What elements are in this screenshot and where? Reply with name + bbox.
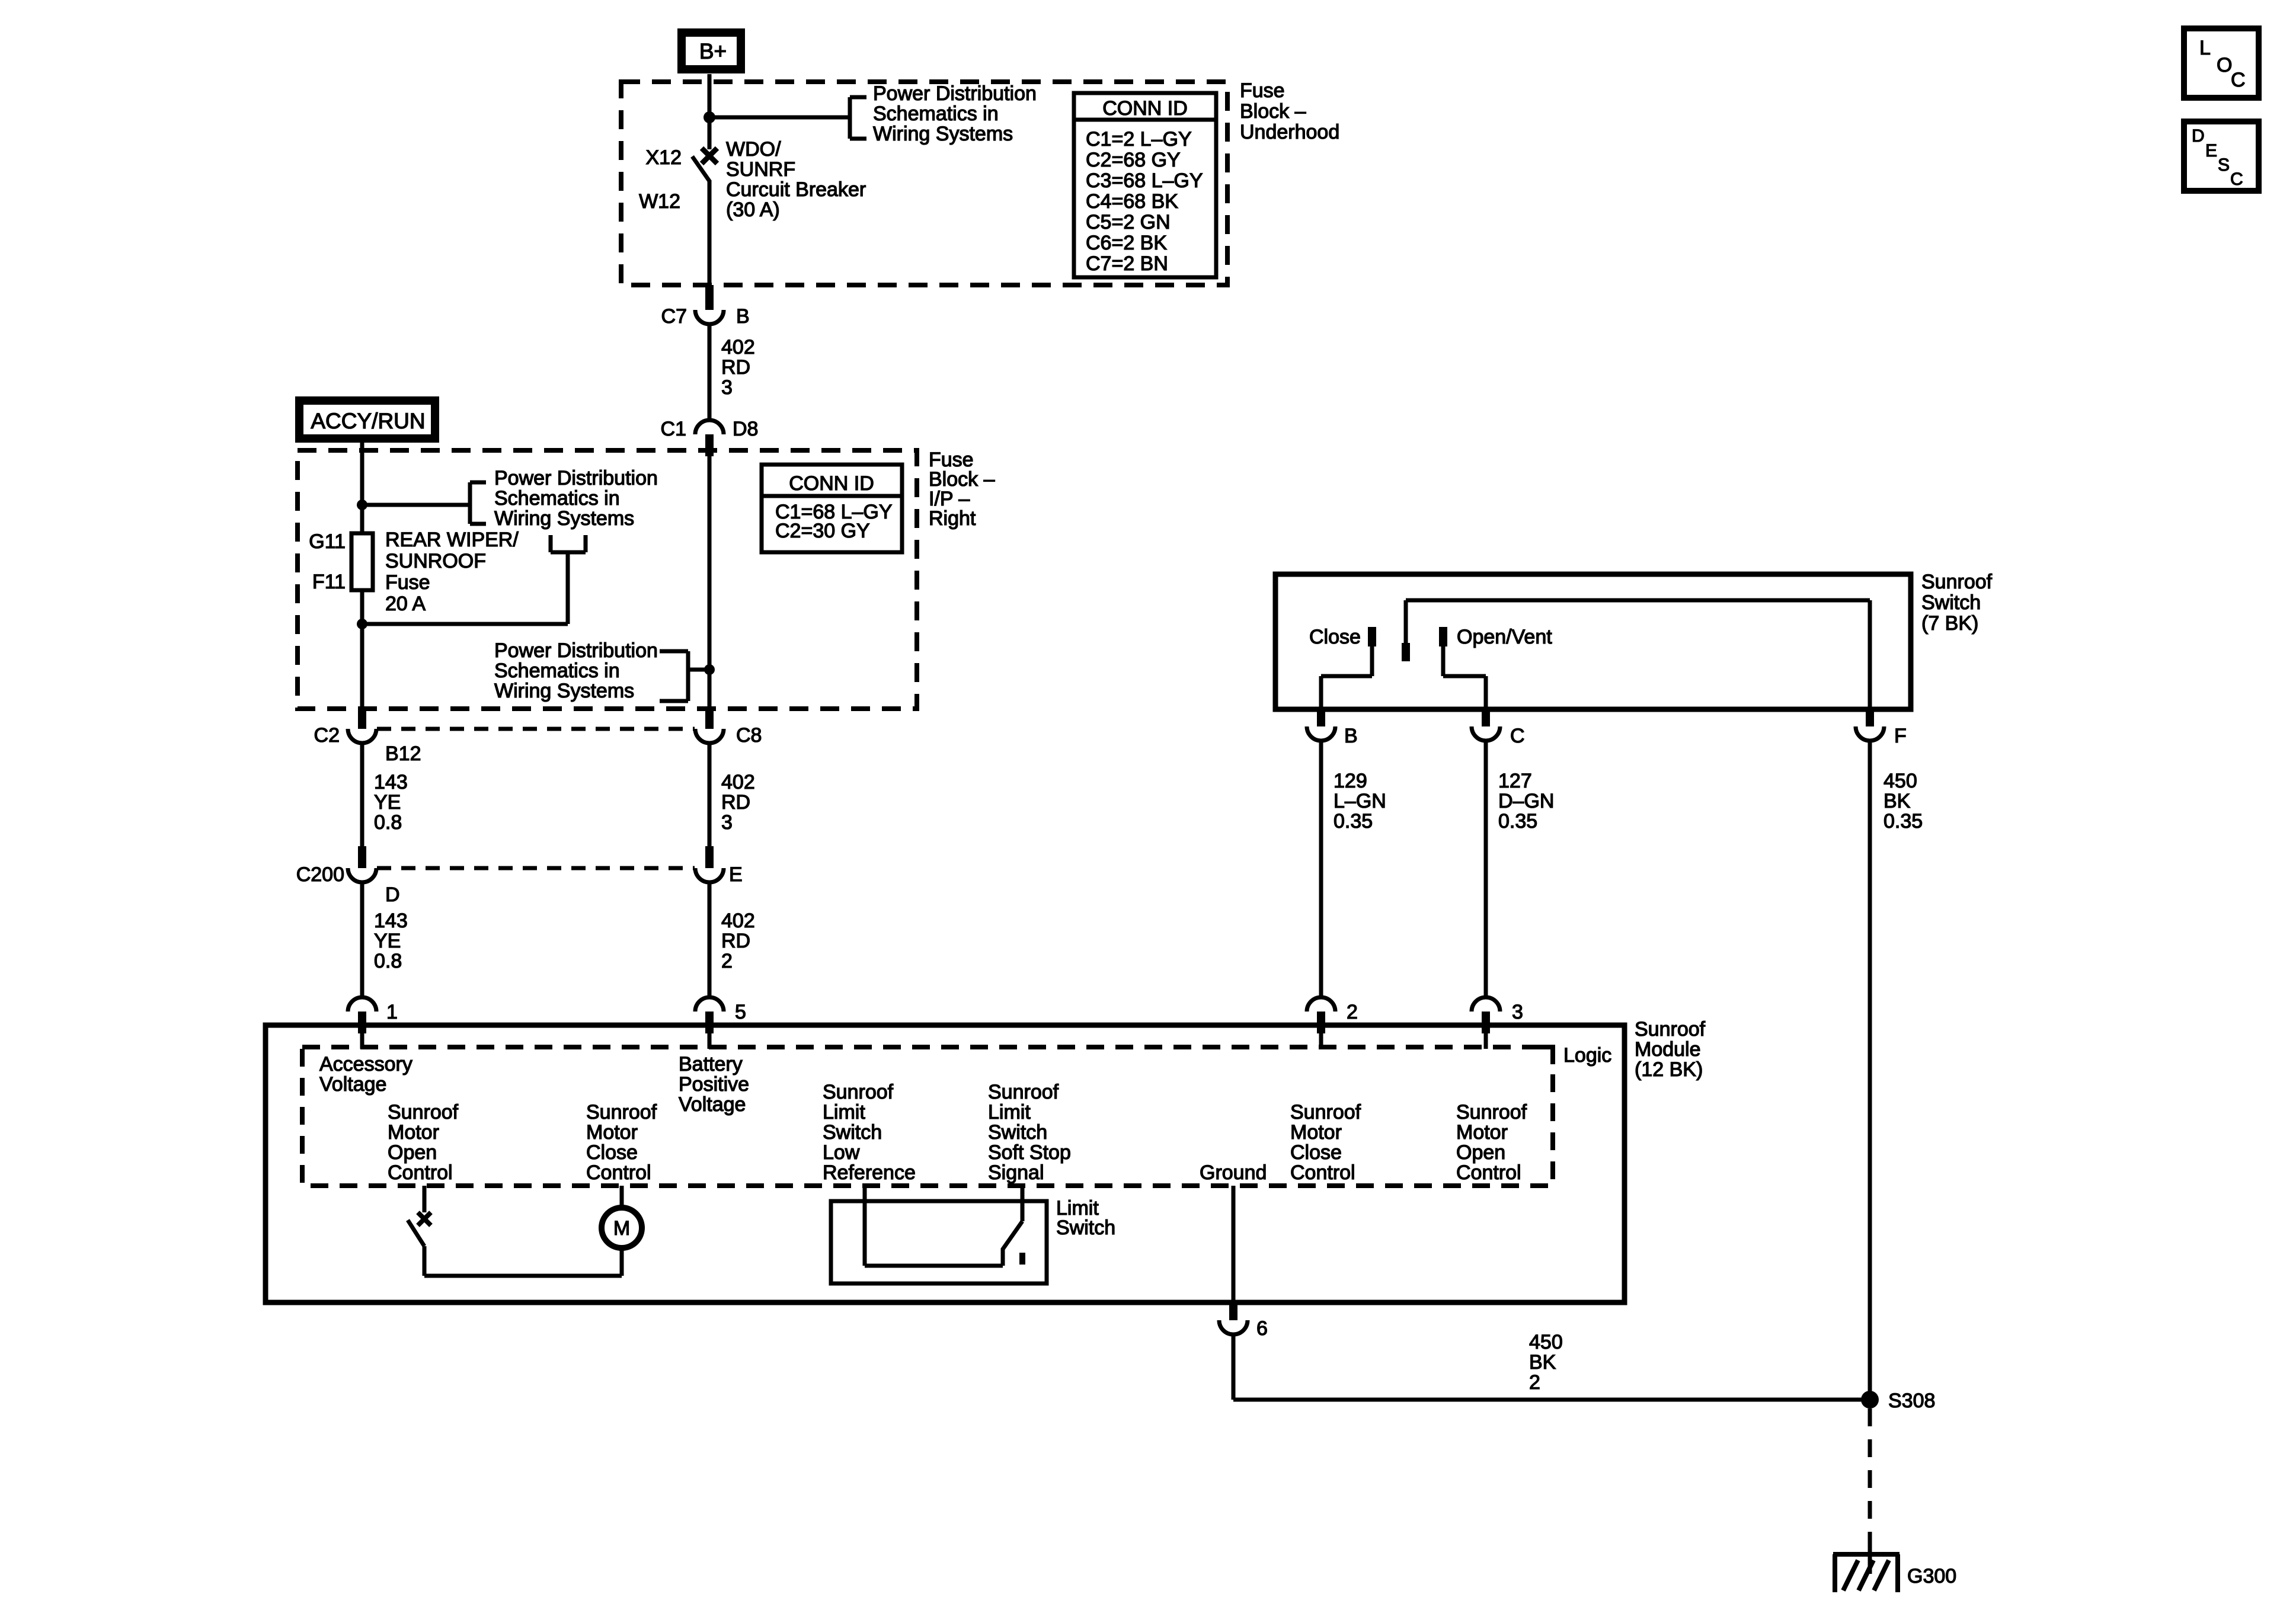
svg-text:BK: BK bbox=[1884, 790, 1911, 812]
svg-text:0.35: 0.35 bbox=[1334, 810, 1373, 833]
svg-text:0.35: 0.35 bbox=[1884, 810, 1923, 833]
svg-text:402: 402 bbox=[721, 910, 755, 932]
svg-text:C5=2 GN: C5=2 GN bbox=[1086, 211, 1171, 233]
svg-text:C3=68 L–GY: C3=68 L–GY bbox=[1086, 169, 1203, 192]
svg-text:F11: F11 bbox=[312, 571, 346, 593]
svg-text:Curcuit Breaker: Curcuit Breaker bbox=[726, 178, 866, 201]
svg-text:Sunroof: Sunroof bbox=[1921, 571, 1993, 593]
svg-text:C2: C2 bbox=[314, 724, 340, 747]
svg-text:C7=2 BN: C7=2 BN bbox=[1086, 252, 1168, 275]
svg-text:D: D bbox=[2192, 126, 2205, 146]
svg-text:Fuse: Fuse bbox=[385, 571, 430, 594]
svg-text:C2=30 GY: C2=30 GY bbox=[775, 520, 870, 542]
svg-text:D–GN: D–GN bbox=[1498, 790, 1554, 812]
svg-text:Open: Open bbox=[1456, 1141, 1505, 1164]
svg-text:(30 A): (30 A) bbox=[726, 199, 780, 221]
svg-text:Block –: Block – bbox=[1240, 100, 1306, 123]
svg-text:Right: Right bbox=[929, 507, 976, 530]
svg-text:RD: RD bbox=[721, 930, 750, 952]
svg-text:G300: G300 bbox=[1907, 1565, 1956, 1587]
svg-text:Fuse: Fuse bbox=[1240, 79, 1285, 102]
svg-text:YE: YE bbox=[374, 930, 401, 952]
svg-text:143: 143 bbox=[374, 910, 408, 932]
svg-text:G11: G11 bbox=[309, 530, 346, 553]
svg-text:C2=68 GY: C2=68 GY bbox=[1086, 149, 1181, 171]
svg-text:C7: C7 bbox=[661, 305, 687, 328]
svg-text:L–GN: L–GN bbox=[1334, 790, 1386, 812]
svg-text:0.8: 0.8 bbox=[374, 950, 402, 972]
svg-text:C1=2 L–GY: C1=2 L–GY bbox=[1086, 128, 1192, 151]
svg-text:B: B bbox=[736, 305, 750, 328]
svg-text:Sunroof: Sunroof bbox=[586, 1101, 657, 1124]
svg-text:RD: RD bbox=[721, 356, 750, 379]
svg-text:Power Distribution: Power Distribution bbox=[494, 639, 658, 662]
svg-text:402: 402 bbox=[721, 336, 755, 359]
svg-text:Switch: Switch bbox=[1921, 591, 1981, 614]
svg-text:20 A: 20 A bbox=[385, 593, 426, 615]
svg-text:Soft Stop: Soft Stop bbox=[988, 1141, 1071, 1164]
svg-text:127: 127 bbox=[1498, 770, 1532, 792]
svg-text:SUNROOF: SUNROOF bbox=[385, 550, 486, 572]
svg-text:Sunroof: Sunroof bbox=[1456, 1101, 1527, 1124]
svg-text:2: 2 bbox=[1347, 1001, 1358, 1023]
svg-text:Switch: Switch bbox=[823, 1121, 882, 1144]
svg-text:Limit: Limit bbox=[823, 1101, 865, 1124]
svg-text:(7 BK): (7 BK) bbox=[1921, 612, 1978, 635]
svg-text:6: 6 bbox=[1256, 1317, 1268, 1340]
svg-text:Switch: Switch bbox=[988, 1121, 1047, 1144]
svg-text:Motor: Motor bbox=[1456, 1121, 1508, 1144]
svg-text:Close: Close bbox=[1290, 1141, 1342, 1164]
svg-text:Open: Open bbox=[388, 1141, 437, 1164]
svg-text:Switch: Switch bbox=[1056, 1217, 1115, 1239]
svg-text:C: C bbox=[2230, 169, 2243, 189]
svg-text:BK: BK bbox=[1529, 1351, 1556, 1374]
svg-text:C6=2 BK: C6=2 BK bbox=[1086, 232, 1167, 254]
svg-text:D: D bbox=[385, 884, 400, 906]
svg-text:Voltage: Voltage bbox=[679, 1093, 746, 1116]
svg-text:Reference: Reference bbox=[823, 1161, 916, 1184]
svg-text:S308: S308 bbox=[1888, 1390, 1935, 1412]
svg-text:O: O bbox=[2217, 54, 2232, 76]
svg-text:B: B bbox=[1344, 725, 1358, 747]
svg-text:Close: Close bbox=[586, 1141, 638, 1164]
svg-text:3: 3 bbox=[1512, 1001, 1523, 1023]
svg-text:Wiring Systems: Wiring Systems bbox=[494, 507, 634, 530]
svg-text:SUNRF: SUNRF bbox=[726, 158, 795, 181]
svg-text:Low: Low bbox=[823, 1141, 860, 1164]
svg-text:Underhood: Underhood bbox=[1240, 121, 1339, 143]
svg-text:M: M bbox=[613, 1217, 630, 1240]
svg-text:L: L bbox=[2199, 37, 2211, 59]
svg-text:CONN ID: CONN ID bbox=[789, 472, 874, 495]
svg-text:Motor: Motor bbox=[388, 1121, 439, 1144]
svg-text:Sunroof: Sunroof bbox=[823, 1081, 894, 1103]
svg-text:2: 2 bbox=[721, 950, 733, 972]
svg-text:C200: C200 bbox=[296, 863, 344, 886]
svg-text:Positive: Positive bbox=[679, 1073, 749, 1096]
svg-text:RD: RD bbox=[721, 791, 750, 814]
svg-text:Logic: Logic bbox=[1563, 1044, 1611, 1067]
svg-text:F: F bbox=[1894, 725, 1907, 747]
svg-text:Motor: Motor bbox=[1290, 1121, 1342, 1144]
svg-text:Sunroof: Sunroof bbox=[388, 1101, 459, 1124]
svg-text:Open/Vent: Open/Vent bbox=[1457, 626, 1552, 648]
svg-text:Battery: Battery bbox=[679, 1053, 743, 1076]
svg-text:B+: B+ bbox=[699, 39, 727, 63]
svg-text:E: E bbox=[2205, 141, 2217, 161]
svg-text:Close: Close bbox=[1309, 626, 1361, 648]
svg-text:Voltage: Voltage bbox=[319, 1073, 386, 1096]
svg-text:402: 402 bbox=[721, 771, 755, 793]
svg-text:D8: D8 bbox=[733, 418, 758, 440]
svg-text:3: 3 bbox=[721, 811, 733, 834]
svg-text:C: C bbox=[1510, 725, 1525, 747]
svg-text:Control: Control bbox=[388, 1161, 453, 1184]
svg-text:Module: Module bbox=[1635, 1038, 1701, 1061]
svg-text:Control: Control bbox=[586, 1161, 651, 1184]
svg-text:129: 129 bbox=[1334, 770, 1367, 792]
svg-text:Power Distribution: Power Distribution bbox=[494, 467, 658, 489]
svg-text:Signal: Signal bbox=[988, 1161, 1044, 1184]
svg-text:2: 2 bbox=[1529, 1371, 1540, 1394]
svg-text:C1: C1 bbox=[661, 418, 686, 440]
svg-text:Sunroof: Sunroof bbox=[988, 1081, 1059, 1103]
svg-text:E: E bbox=[729, 863, 743, 886]
svg-text:Limit: Limit bbox=[988, 1101, 1031, 1124]
svg-text:YE: YE bbox=[374, 791, 401, 814]
svg-text:Sunroof: Sunroof bbox=[1635, 1018, 1706, 1041]
svg-text:C8: C8 bbox=[736, 724, 762, 747]
svg-text:143: 143 bbox=[374, 771, 408, 793]
svg-text:WDO/: WDO/ bbox=[726, 138, 781, 161]
svg-text:W12: W12 bbox=[639, 190, 680, 213]
svg-text:S: S bbox=[2218, 155, 2230, 175]
svg-text:3: 3 bbox=[721, 376, 733, 399]
svg-text:Schematics in: Schematics in bbox=[873, 103, 999, 125]
svg-text:Control: Control bbox=[1290, 1161, 1355, 1184]
svg-text:5: 5 bbox=[735, 1001, 746, 1023]
svg-text:REAR WIPER/: REAR WIPER/ bbox=[385, 529, 519, 551]
svg-text:450: 450 bbox=[1884, 770, 1917, 792]
svg-text:C4=68 BK: C4=68 BK bbox=[1086, 190, 1178, 213]
svg-text:ACCY/RUN: ACCY/RUN bbox=[311, 409, 425, 433]
svg-text:Ground: Ground bbox=[1200, 1161, 1267, 1184]
svg-text:Sunroof: Sunroof bbox=[1290, 1101, 1361, 1124]
svg-text:B12: B12 bbox=[385, 742, 421, 765]
svg-text:Accessory: Accessory bbox=[319, 1053, 412, 1076]
svg-text:Wiring Systems: Wiring Systems bbox=[873, 123, 1013, 145]
svg-text:X12: X12 bbox=[646, 146, 682, 169]
svg-text:Schematics in: Schematics in bbox=[494, 660, 620, 682]
svg-text:(12 BK): (12 BK) bbox=[1635, 1058, 1703, 1081]
svg-text:Motor: Motor bbox=[586, 1121, 638, 1144]
svg-text:Schematics in: Schematics in bbox=[494, 487, 620, 510]
svg-text:Wiring Systems: Wiring Systems bbox=[494, 680, 634, 702]
svg-text:1: 1 bbox=[386, 1001, 398, 1023]
svg-text:0.35: 0.35 bbox=[1498, 810, 1537, 833]
svg-text:450: 450 bbox=[1529, 1331, 1563, 1353]
svg-text:Power Distribution: Power Distribution bbox=[873, 82, 1037, 105]
svg-text:CONN ID: CONN ID bbox=[1102, 97, 1188, 120]
svg-text:Control: Control bbox=[1456, 1161, 1521, 1184]
svg-text:C: C bbox=[2231, 69, 2246, 91]
svg-text:0.8: 0.8 bbox=[374, 811, 402, 834]
